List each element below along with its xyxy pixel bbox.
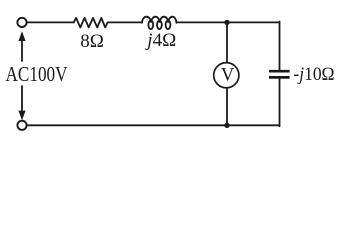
wire bottom: [27, 124, 280, 126]
wire top-middle segment: [108, 21, 142, 23]
inductor L j4ohm: [142, 17, 176, 29]
right branch wire lower: [279, 79, 281, 126]
voltmeter branch wire upper: [226, 22, 228, 61]
source arrow up: [18, 31, 25, 61]
svg-text:j4Ω: j4Ω: [144, 30, 176, 51]
capacitor C -j10ohm plates: [269, 71, 290, 77]
source arrow down: [18, 86, 25, 120]
wire top-left segment: [27, 21, 74, 23]
svg-text:AC100V: AC100V: [6, 63, 68, 86]
junction dot top: [224, 20, 229, 25]
right branch wire upper: [279, 22, 281, 70]
wire top-right segment: [176, 21, 279, 23]
terminal bottom-left: [17, 121, 26, 130]
svg-text:V: V: [221, 66, 235, 86]
junction dot bottom: [224, 123, 229, 128]
resistor R 8ohm: [74, 18, 108, 28]
voltmeter branch wire lower: [226, 88, 228, 125]
terminal top-left: [17, 18, 26, 27]
svg-text:-j10Ω: -j10Ω: [293, 63, 334, 84]
voltmeter U1 circle: [214, 63, 239, 88]
svg-text:8Ω: 8Ω: [80, 31, 104, 52]
